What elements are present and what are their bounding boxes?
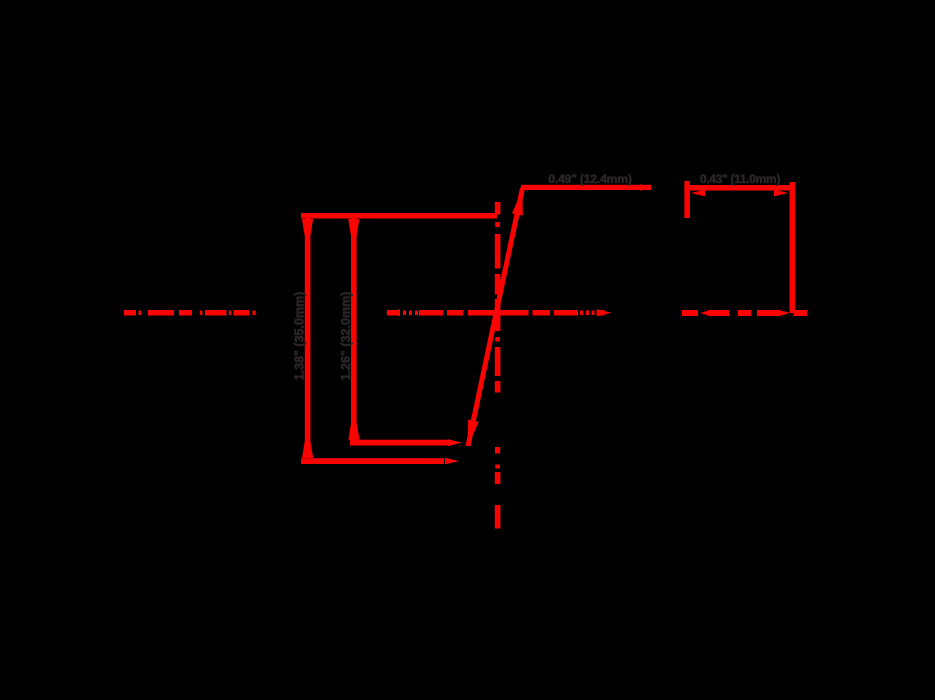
vertical centerline (dash-dot) through mirror center: [495, 202, 501, 529]
slanted mirror surface line: [468, 188, 523, 446]
right figure: top dimension line: [684, 185, 794, 191]
svg-text:0.43" (11.0mm): 0.43" (11.0mm): [700, 172, 781, 186]
right figure: arrows under top line: [691, 190, 705, 197]
horizontal optical-axis centerline, left segment: [124, 310, 256, 316]
svg-text:1.26" (32.0mm): 1.26" (32.0mm): [339, 292, 353, 381]
top-middle dimension line: [521, 185, 651, 190]
left figure: inner bottom extension line with right arrow: [350, 440, 450, 446]
left figure: outer vertical dimension line: [305, 218, 311, 458]
right figure: right vertical: [790, 182, 796, 313]
horizontal optical-axis centerline, middle segment: [386, 309, 612, 316]
left figure: top extension line: [301, 213, 497, 219]
svg-text:0.49" (12.4mm): 0.49" (12.4mm): [548, 172, 632, 186]
right figure: bottom centerline with arrows: [682, 310, 807, 317]
left figure: inner vertical dimension line: [351, 218, 357, 440]
left figure: outer bottom extension line with right arrow: [301, 458, 444, 464]
svg-text:1.38" (35.0mm): 1.38" (35.0mm): [293, 292, 307, 381]
right figure: left stub: [684, 181, 690, 218]
